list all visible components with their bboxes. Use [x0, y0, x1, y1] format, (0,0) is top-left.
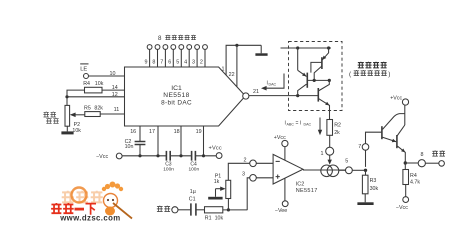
op-amp U2: IC2 NE5517	[273, 154, 318, 194]
terminal +Vcc rail	[209, 146, 223, 159]
transistor T1 (PNP, left)	[298, 48, 308, 96]
svg-text:10k: 10k	[215, 215, 224, 221]
svg-text:4: 4	[184, 59, 187, 65]
terminal output (输出)	[432, 150, 445, 166]
svg-text:3: 3	[192, 59, 195, 65]
svg-text:8-bit DAC: 8-bit DAC	[161, 99, 192, 106]
svg-text:IC1: IC1	[171, 85, 182, 92]
wire pin 18	[174, 126, 181, 156]
node pin 1 of IC2 (bias input)	[321, 135, 334, 157]
svg-text:2k: 2k	[334, 130, 340, 136]
svg-text:10n: 10n	[125, 144, 134, 150]
svg-text:www.dzsc.com: www.dzsc.com	[59, 213, 120, 222]
terminal input (输入)	[157, 206, 178, 213]
ground under R3	[357, 194, 373, 205]
transistor T2 (PNP, top right)	[311, 48, 329, 80]
svg-text:4.7k: 4.7k	[410, 180, 420, 186]
OTA output current-source symbol (double circles)	[303, 165, 346, 177]
annotation I_ABC arrow	[285, 118, 323, 136]
svg-text:19: 19	[196, 129, 202, 135]
wire pin 21 (I_DAC line)	[249, 94, 318, 97]
svg-text:R1: R1	[205, 215, 212, 221]
svg-text:): )	[388, 71, 390, 78]
resistor R4 10k	[83, 81, 103, 93]
ground (top, pins 1/22)	[255, 45, 267, 56]
svg-text:16: 16	[130, 129, 136, 135]
terminal +Vcc of IC2	[274, 135, 288, 160]
svg-text:8: 8	[158, 35, 162, 42]
svg-text:5: 5	[176, 59, 179, 65]
svg-text:8: 8	[152, 59, 155, 65]
wire pin 22	[235, 44, 238, 87]
terminal -Vee of IC2	[275, 178, 288, 214]
svg-text:100n: 100n	[163, 166, 174, 172]
node pin 8 / output wire	[404, 152, 439, 167]
svg-text:7: 7	[358, 144, 361, 150]
svg-text:+Vcc: +Vcc	[209, 146, 222, 152]
svg-text:12: 12	[112, 92, 118, 98]
svg-text:−Vcc: −Vcc	[96, 154, 108, 160]
transistor Q1 (darlington first)	[382, 114, 405, 143]
capacitor C3 100n	[163, 151, 174, 172]
svg-text:21: 21	[253, 89, 259, 95]
svg-text:1: 1	[222, 67, 225, 73]
annotation: drift adjust (漂移调整)	[43, 112, 58, 124]
svg-text:ABC: ABC	[287, 122, 295, 126]
node pin 5	[339, 159, 367, 174]
wire pin 1 to ground	[226, 45, 261, 75]
wire node A	[223, 208, 247, 211]
svg-text:8: 8	[421, 152, 424, 158]
svg-text:NE5518: NE5518	[163, 92, 190, 99]
svg-text:18: 18	[174, 129, 180, 135]
svg-text:R4: R4	[410, 173, 417, 179]
svg-text:1µ: 1µ	[190, 189, 196, 195]
transistor Q2 (darlington second)	[397, 125, 405, 163]
wire pin 14	[67, 85, 125, 105]
wire pin3 to node A	[247, 178, 250, 210]
node pin 3 of IC2	[242, 172, 273, 182]
wire pin2 to P1 top	[228, 163, 249, 180]
svg-text:30k: 30k	[370, 186, 379, 192]
svg-text:C1: C1	[189, 197, 196, 203]
resistor R5 82k	[84, 106, 103, 117]
svg-text:1k: 1k	[214, 179, 220, 185]
wire pin 11	[100, 107, 124, 114]
wire bias arrow into OTA output symbol	[328, 155, 332, 164]
svg-text:R2: R2	[334, 123, 341, 129]
current mirror dashed box	[289, 42, 343, 111]
svg-text:DAC: DAC	[304, 122, 312, 126]
svg-text:6: 6	[168, 59, 171, 65]
svg-text:2: 2	[244, 158, 247, 164]
svg-text:= I: = I	[296, 120, 302, 126]
wire pin 10	[89, 71, 125, 77]
wire pin 19	[196, 126, 204, 156]
svg-text:14: 14	[112, 85, 118, 91]
node pin 21 (DAC output terminal circle)	[243, 89, 259, 99]
svg-text:+Vcc: +Vcc	[274, 135, 286, 141]
svg-text:10k: 10k	[95, 81, 104, 87]
svg-text:2: 2	[200, 59, 203, 65]
wire pin 17	[149, 126, 158, 156]
transistor T3 (NPN, bottom)	[318, 80, 329, 119]
data bus terminals pins 9-2	[145, 45, 208, 67]
terminal -Vcc left	[96, 153, 122, 160]
ground under P2	[61, 126, 73, 134]
svg-text:3: 3	[242, 172, 245, 178]
ground at P1 wiper	[208, 189, 222, 200]
svg-text:−Vee: −Vee	[275, 208, 287, 214]
svg-text:11: 11	[114, 107, 120, 113]
svg-text:10: 10	[110, 71, 116, 77]
potentiometer P1 1k	[214, 174, 231, 210]
svg-text:100n: 100n	[188, 166, 199, 172]
node pin 7	[358, 132, 382, 167]
svg-text:−Vcc: −Vcc	[396, 205, 408, 211]
svg-text:R3: R3	[370, 178, 377, 184]
annotation: current mirror label (电流镜像 / 晶体管阵列)	[349, 62, 390, 78]
svg-text:1: 1	[321, 151, 324, 157]
terminal LE (latch enable)	[80, 64, 88, 79]
wire mirror top rail	[281, 46, 332, 49]
wire node B (T1 base line)	[307, 79, 331, 82]
node pin 2 of IC2	[244, 158, 274, 167]
annotation I_DAC arrow	[261, 74, 284, 91]
resistor R2 2k	[327, 120, 341, 136]
IC U1: IC1 NE5518 8-bit DAC body	[125, 67, 244, 127]
wire -Vcc rail	[122, 154, 216, 157]
svg-text:7: 7	[160, 59, 163, 65]
wire pin 12	[65, 92, 124, 99]
capacitor C4 100n	[188, 151, 199, 172]
svg-text:22: 22	[229, 72, 235, 78]
resistor R4 4.7k (output)	[403, 163, 420, 186]
svg-text:10k: 10k	[72, 128, 81, 134]
svg-text:DAC: DAC	[269, 82, 277, 86]
svg-text:R5: R5	[84, 106, 91, 112]
terminal +Vcc darlington	[390, 95, 408, 125]
wire pin 16	[130, 126, 140, 156]
capacitor C2 10n	[125, 139, 146, 150]
svg-text:+Vcc: +Vcc	[390, 95, 402, 101]
svg-text:IC2: IC2	[296, 182, 305, 188]
potentiometer P2 10k	[65, 105, 85, 134]
resistor R1 10k	[205, 207, 224, 222]
svg-text:82k: 82k	[94, 106, 103, 112]
svg-text:9: 9	[145, 59, 148, 65]
svg-text:5: 5	[345, 159, 348, 165]
terminal -Vcc bottom	[396, 185, 409, 212]
svg-text:17: 17	[149, 129, 155, 135]
watermark	[51, 182, 132, 223]
svg-text:LE: LE	[80, 67, 87, 73]
label: 8-bit data bus (8位数据总线)	[158, 35, 196, 42]
resistor R3 30k	[362, 170, 378, 194]
svg-text:R4: R4	[83, 81, 90, 87]
svg-text:NE5517: NE5517	[296, 188, 318, 194]
capacitor C1 1u	[178, 189, 205, 216]
